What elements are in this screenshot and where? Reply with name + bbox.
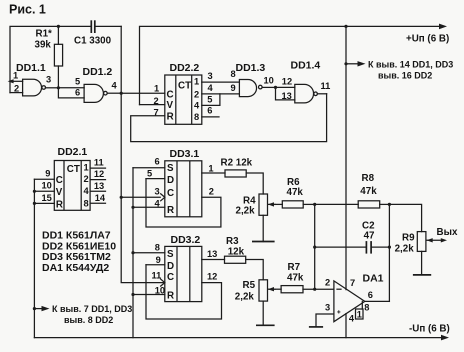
svg-text:4: 4: [112, 81, 118, 91]
svg-text:R7: R7: [288, 262, 301, 273]
wire DD2.2 out row2 pin4 to DD1.3 pin9: [202, 83, 240, 94]
svg-text:2,2k: 2,2k: [235, 292, 255, 303]
svg-text:1: 1: [208, 163, 213, 173]
wire R5 bottom ground: [256, 301, 275, 325]
gate DD1.2: [83, 66, 113, 102]
svg-text:3: 3: [155, 186, 160, 196]
svg-text:12: 12: [207, 271, 217, 281]
pin 1 input arrow DD1.1: [8, 71, 23, 84]
wire to DD1.4 pin 12: [276, 76, 295, 87]
svg-text:2: 2: [194, 89, 199, 99]
wire DA1 supply drop pin 7: [345, 26, 347, 289]
svg-text:11: 11: [94, 158, 104, 168]
svg-text:К выв. 14 DD1, DD3: К выв. 14 DD1, DD3: [368, 59, 453, 69]
svg-text:8: 8: [84, 199, 89, 209]
svg-text:47k: 47k: [287, 273, 304, 284]
svg-text:D: D: [167, 261, 174, 272]
wire DD3.1 pin4 R to bus: [133, 198, 165, 208]
svg-text:1: 1: [13, 71, 18, 81]
wire R3 to R5 top: [246, 260, 264, 280]
wire DD1.4 output pin 11: [317, 81, 330, 94]
wire DD3.1 pin6 S to bus: [133, 156, 165, 167]
svg-text:12: 12: [94, 169, 104, 179]
svg-text:11: 11: [152, 271, 162, 281]
resistor R2: [221, 157, 253, 177]
svg-text:8: 8: [231, 69, 236, 79]
svg-text:10: 10: [264, 75, 274, 85]
svg-text:9: 9: [156, 255, 161, 265]
svg-text:6: 6: [207, 106, 212, 116]
svg-text:DD2.2: DD2.2: [170, 62, 200, 74]
wire +U rail: [140, 24, 450, 105]
wire loop to DD1.2 pin 6: [58, 87, 84, 98]
wire DD2.1 pin15 R to bus: [34, 193, 54, 203]
wire DD3.1 out pin1 to R2: [202, 163, 225, 173]
wire R8 row crossing to R8: [315, 203, 359, 205]
svg-text:1: 1: [194, 76, 199, 86]
svg-text:DA1 К544УД2: DA1 К544УД2: [42, 262, 109, 274]
wire top feedback loop left: [10, 26, 58, 92]
svg-text:5: 5: [147, 169, 152, 179]
svg-text:R: R: [167, 112, 174, 123]
svg-text:R8: R8: [362, 173, 375, 184]
resistor R3: [225, 236, 246, 263]
svg-text:S: S: [167, 163, 174, 174]
svg-text:2: 2: [209, 187, 214, 197]
svg-text:D: D: [167, 175, 174, 186]
potentiometer R5: [235, 280, 275, 303]
svg-text:V: V: [56, 187, 63, 198]
svg-text:47k: 47k: [287, 187, 304, 198]
node bus V: [33, 190, 36, 193]
svg-text:9: 9: [231, 83, 236, 93]
wire -U rail: [34, 324, 449, 341]
wire to DD1.2 pin 5: [58, 76, 84, 88]
chevron DD3.1 C: [160, 193, 165, 201]
svg-text:9: 9: [45, 169, 50, 179]
wire DD2.2 out row4 pin6 stub: [202, 106, 219, 117]
wire to R9 top: [389, 204, 421, 231]
gate DD1.3: [231, 62, 266, 97]
wire R2 to R4 top: [246, 173, 263, 194]
svg-text:C: C: [167, 90, 174, 101]
correction box pin 1: [356, 301, 364, 319]
wire DA1 output pin6: [365, 300, 390, 302]
svg-text:11: 11: [321, 81, 331, 91]
wire bus tap arrow: [34, 304, 132, 325]
wire R6 right to inverting node: [303, 203, 315, 205]
wire DD3.2 pin10 R to bus: [133, 285, 165, 295]
gate DD1.1 (NAND): [16, 62, 46, 96]
svg-text:C: C: [56, 175, 63, 186]
wire supply tap arrow: [346, 59, 453, 80]
svg-text:1: 1: [84, 163, 89, 173]
svg-text:10: 10: [155, 285, 165, 295]
gate DD1.4: [291, 60, 321, 103]
wire S-R ground bus: [132, 168, 134, 338]
wire DD2.2 pin7 R feedback from DD1.4: [131, 94, 327, 142]
node R1 top junction: [57, 25, 60, 28]
svg-text:15: 15: [42, 193, 52, 203]
svg-text:DD1.1: DD1.1: [16, 62, 46, 74]
svg-text:4: 4: [194, 101, 200, 111]
svg-text:DD1.3: DD1.3: [236, 62, 266, 74]
svg-text:13: 13: [207, 249, 217, 259]
node DD1.1 out / R1 bottom: [57, 86, 60, 89]
wire DD3.2 pin9 D: [146, 255, 165, 265]
svg-text:выв. 8 DD2: выв. 8 DD2: [64, 315, 113, 325]
svg-text:DD1.4: DD1.4: [291, 60, 321, 72]
potentiometer R4: [236, 194, 276, 217]
node supply tap: [344, 62, 347, 65]
svg-text:2,2k: 2,2k: [395, 244, 415, 255]
svg-text:-Uп (6 В): -Uп (6 В): [409, 324, 450, 335]
svg-text:R5: R5: [243, 280, 256, 291]
svg-text:12k: 12k: [228, 246, 245, 257]
wire DD1.2 out to DD2.2 pin1 C: [121, 92, 165, 94]
node C2 right: [388, 246, 391, 249]
svg-text:2,2k: 2,2k: [236, 206, 256, 217]
node inverting bottom: [313, 288, 316, 291]
IC box DD3.2: [165, 234, 202, 302]
resistor R7: [275, 262, 304, 293]
svg-text:R: R: [167, 291, 174, 302]
svg-text:5: 5: [75, 76, 80, 86]
wire DD2.2 out row3 pin5 joins row2: [202, 94, 220, 106]
IC box DD3.1: [165, 148, 202, 217]
wire DA1 pin3 to ground: [309, 314, 334, 327]
wire DD2.1 output stubs 11-14: [90, 158, 106, 204]
node SR bus S2row: [131, 251, 134, 254]
svg-text:6: 6: [155, 156, 160, 166]
svg-text:выв. 16 DD2: выв. 16 DD2: [378, 71, 432, 81]
svg-text:8: 8: [155, 243, 160, 253]
svg-text:V: V: [167, 100, 174, 111]
svg-text:13: 13: [94, 181, 104, 191]
svg-text:10: 10: [42, 181, 52, 191]
svg-text:4: 4: [155, 198, 161, 208]
svg-text:47: 47: [364, 230, 375, 241]
IC box DD2.2: [154, 62, 202, 125]
wire DD1.1 output pin 3: [46, 74, 59, 88]
svg-text:1: 1: [357, 310, 362, 320]
wire DD2.2 out row1 pin3 to DD1.3 pin8: [202, 71, 240, 82]
capacitor C2: [315, 221, 390, 254]
op-amp DA1: [325, 272, 384, 323]
wire clock bus down to DD3: [121, 93, 165, 282]
pin 2 wire DD1.1: [10, 83, 23, 93]
svg-text:4: 4: [208, 83, 214, 93]
title Рис. 1: [9, 3, 46, 17]
svg-text:DD2.1: DD2.1: [58, 146, 88, 158]
svg-text:R1*: R1*: [36, 29, 53, 40]
svg-text:C1 3300: C1 3300: [74, 36, 112, 47]
svg-text:DD3.1: DD3.1: [170, 148, 200, 160]
wire output node vertical: [388, 204, 390, 301]
wire DD2.2 pin2 V from +U: [140, 104, 165, 106]
wire DD3.1 pin5 D: [146, 169, 165, 179]
wire inverting node vertical: [314, 204, 316, 289]
svg-text:DD1.2: DD1.2: [83, 66, 113, 78]
wire DD3.2 pin11 C label: [152, 271, 162, 281]
resistor R8: [358, 173, 380, 208]
svg-text:R: R: [167, 205, 174, 216]
wire DD3.2 pin8 S to bus: [133, 243, 165, 253]
svg-text:4: 4: [349, 313, 355, 323]
wire R4 bottom ground: [252, 215, 275, 241]
node R8 output: [388, 203, 391, 206]
svg-text:R2 12k: R2 12k: [221, 157, 253, 168]
node DD1.3 out: [274, 86, 277, 89]
wire DD2.1 pin10 V to bus: [34, 181, 54, 192]
node +U to DA1 pin7: [344, 25, 347, 28]
svg-text:12: 12: [282, 76, 292, 86]
svg-text:14: 14: [95, 193, 106, 203]
svg-text:3: 3: [208, 71, 213, 81]
node SR bus R2row: [131, 293, 134, 296]
svg-text:DA1: DA1: [363, 272, 384, 284]
wire DD3.2 out pin12 feedback loop to D: [146, 265, 222, 319]
svg-text:2: 2: [325, 278, 330, 288]
svg-text:7: 7: [350, 278, 355, 288]
wire DA1 pin4 to -U rail: [345, 314, 347, 338]
svg-text:C: C: [167, 272, 174, 283]
resistor R6: [275, 177, 303, 208]
svg-text:2: 2: [84, 174, 89, 184]
svg-text:6: 6: [368, 290, 373, 300]
svg-text:R: R: [56, 199, 63, 210]
wire loop to DD1.4 pin 13: [276, 87, 295, 100]
parts list text: [42, 230, 116, 274]
svg-text:13: 13: [282, 91, 292, 101]
resistor R1: [35, 26, 63, 87]
svg-text:47k: 47k: [360, 186, 377, 197]
svg-text:DD3.2: DD3.2: [171, 234, 201, 246]
svg-text:C: C: [167, 188, 174, 199]
node SR bus R1row: [131, 206, 134, 209]
svg-text:39k: 39k: [35, 40, 52, 51]
IC box DD2.1: [54, 146, 90, 210]
svg-text:6: 6: [75, 87, 80, 97]
svg-text:1: 1: [154, 84, 159, 94]
svg-text:Вых: Вых: [437, 227, 458, 238]
svg-text:3: 3: [325, 302, 330, 312]
svg-text:Рис. 1: Рис. 1: [9, 3, 46, 17]
node clock bus DD3.1: [120, 196, 123, 199]
node inverting top: [313, 203, 316, 206]
svg-text:2: 2: [14, 83, 19, 93]
wire DD3.2 out pin13 to R3: [202, 249, 225, 260]
svg-text:CT: CT: [178, 80, 191, 91]
potentiometer R9: [395, 227, 458, 255]
wire DD1.3 output pin 10: [262, 75, 275, 87]
svg-text:4: 4: [84, 186, 90, 196]
wire DD3.1 out pin2 feedback loop to D: [146, 179, 221, 227]
capacitor C1: [58, 20, 121, 46]
wire DD2.1 pin9 C to bus: [34, 169, 54, 180]
svg-text:R9: R9: [402, 233, 415, 244]
svg-text:+Uп (6 В): +Uп (6 В): [406, 33, 449, 44]
svg-text:3: 3: [46, 74, 51, 84]
chevron DD3.2 C: [160, 279, 165, 287]
wire DD3.1 pin3 C from clock bus: [121, 186, 160, 197]
node C2 left: [313, 246, 316, 249]
svg-text:S: S: [167, 249, 174, 260]
wire DD2.1 ground bus left: [33, 179, 35, 337]
svg-text:8: 8: [194, 112, 199, 122]
wire R8 right to output node: [380, 203, 390, 205]
node bus tap: [33, 307, 36, 310]
svg-text:К выв. 7 DD1, DD3: К выв. 7 DD1, DD3: [52, 304, 132, 314]
wire R9 bottom ground: [413, 251, 431, 275]
svg-text:5: 5: [207, 94, 212, 104]
wire DD1.2 output pin 4: [107, 81, 121, 94]
svg-text:8: 8: [364, 302, 369, 312]
node DD1.2 output 4-way: [120, 92, 123, 95]
wire C1 right down to DD1.2 output node: [120, 26, 122, 93]
wire R7 right to DA1 pin2: [303, 288, 334, 290]
svg-text:CT: CT: [67, 164, 80, 175]
node bus R: [33, 202, 36, 205]
